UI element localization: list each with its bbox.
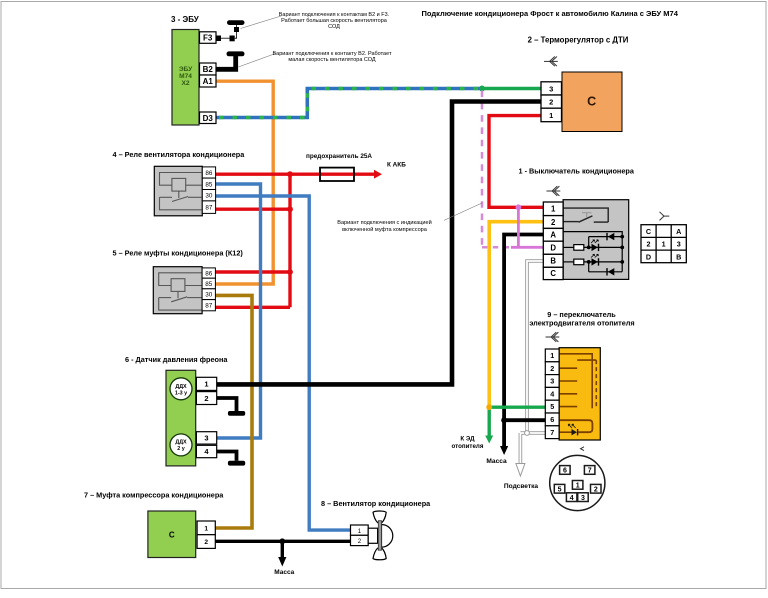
svg-text:2: 2 <box>647 240 651 249</box>
svg-text:ДДХ: ДДХ <box>175 384 187 390</box>
svg-text:5 – Реле муфты кондиционера (К: 5 – Реле муфты кондиционера (К12) <box>113 249 244 258</box>
svg-text:6 - Датчик давления фреона: 6 - Датчик давления фреона <box>125 355 228 364</box>
svg-text:4 – Реле вентилятора кондицион: 4 – Реле вентилятора кондиционера <box>113 150 246 159</box>
svg-text:2 – Терморегулятор с ДТИ: 2 – Терморегулятор с ДТИ <box>528 36 629 45</box>
svg-text:малая скорость вентилятора СОД: малая скорость вентилятора СОД <box>288 57 376 63</box>
svg-text:86: 86 <box>205 270 213 277</box>
svg-text:5: 5 <box>558 486 562 493</box>
svg-text:B: B <box>550 257 556 266</box>
svg-text:1: 1 <box>550 351 554 360</box>
svg-text:D3: D3 <box>203 114 214 123</box>
svg-text:1-3 у: 1-3 у <box>175 391 187 397</box>
svg-text:87: 87 <box>205 303 213 310</box>
svg-text:1: 1 <box>549 111 553 120</box>
svg-text:D: D <box>550 244 556 253</box>
svg-text:8 – Вентилятор кондиционера: 8 – Вентилятор кондиционера <box>321 499 431 508</box>
svg-text:3: 3 <box>549 84 553 93</box>
svg-text:2: 2 <box>549 98 553 107</box>
svg-text:С: С <box>169 531 175 540</box>
svg-text:Х2: Х2 <box>181 80 189 87</box>
svg-text:2: 2 <box>594 486 598 493</box>
svg-text:86: 86 <box>205 170 213 177</box>
svg-text:К АКБ: К АКБ <box>387 162 406 169</box>
svg-text:6: 6 <box>563 468 567 475</box>
svg-text:F3: F3 <box>203 34 213 43</box>
svg-text:1: 1 <box>204 526 208 533</box>
svg-text:2 у: 2 у <box>177 446 185 452</box>
svg-text:Подключение кондиционера Фрост: Подключение кондиционера Фрост к автомоб… <box>422 9 679 18</box>
svg-text:7: 7 <box>550 428 554 437</box>
svg-text:D: D <box>646 252 651 261</box>
svg-text:ЭБУ: ЭБУ <box>179 66 193 73</box>
svg-text:A: A <box>550 231 556 240</box>
svg-text:электродвигателя отопителя: электродвигателя отопителя <box>529 319 634 328</box>
svg-text:6: 6 <box>550 415 554 424</box>
svg-text:2: 2 <box>204 394 208 403</box>
svg-text:A: A <box>676 227 681 236</box>
svg-text:1: 1 <box>551 205 556 214</box>
svg-text:B2: B2 <box>203 65 214 74</box>
svg-text:М74: М74 <box>179 73 192 80</box>
svg-text:1: 1 <box>576 483 580 490</box>
svg-text:30: 30 <box>205 292 213 299</box>
svg-text:1: 1 <box>662 240 666 249</box>
svg-text:3 - ЭБУ: 3 - ЭБУ <box>171 15 200 24</box>
svg-text:Масса: Масса <box>274 569 294 576</box>
svg-text:1: 1 <box>204 380 208 389</box>
svg-text:отопителя: отопителя <box>452 443 484 450</box>
svg-text:5: 5 <box>550 402 554 411</box>
svg-text:A1: A1 <box>203 77 214 86</box>
svg-text:7: 7 <box>588 468 592 475</box>
svg-text:85: 85 <box>205 181 213 188</box>
svg-text:30: 30 <box>205 193 213 200</box>
svg-text:C: C <box>646 227 651 236</box>
svg-text:2: 2 <box>204 539 208 546</box>
svg-text:1 - Выключатель кондиционера: 1 - Выключатель кондиционера <box>519 167 635 176</box>
svg-text:85: 85 <box>205 281 213 288</box>
svg-text:ДДХ: ДДХ <box>175 440 187 446</box>
svg-text:2: 2 <box>550 364 554 373</box>
svg-text:C: C <box>550 269 556 278</box>
svg-text:87: 87 <box>205 205 213 212</box>
svg-text:С: С <box>587 95 596 109</box>
svg-text:Вариант подключения с индикаци: Вариант подключения с индикацией <box>337 219 432 226</box>
svg-text:включенной муфта компрессора: включенной муфта компрессора <box>342 226 428 233</box>
svg-text:B: B <box>676 252 681 261</box>
svg-text:СОД: СОД <box>328 24 340 30</box>
svg-text:3: 3 <box>204 434 208 443</box>
svg-text:4: 4 <box>550 389 554 398</box>
svg-text:Масса: Масса <box>486 458 507 465</box>
svg-text:3: 3 <box>550 377 554 386</box>
svg-text:7 – Муфта компрессора кондицио: 7 – Муфта компрессора кондиционера <box>84 491 224 500</box>
svg-text:4: 4 <box>570 495 574 502</box>
svg-text:3: 3 <box>581 495 585 502</box>
svg-text:2: 2 <box>551 218 556 227</box>
svg-text:предохранитель 25А: предохранитель 25А <box>306 153 372 160</box>
svg-text:К ЭД: К ЭД <box>460 436 475 443</box>
svg-text:3: 3 <box>677 240 681 249</box>
svg-text:Подсветка: Подсветка <box>504 483 539 490</box>
